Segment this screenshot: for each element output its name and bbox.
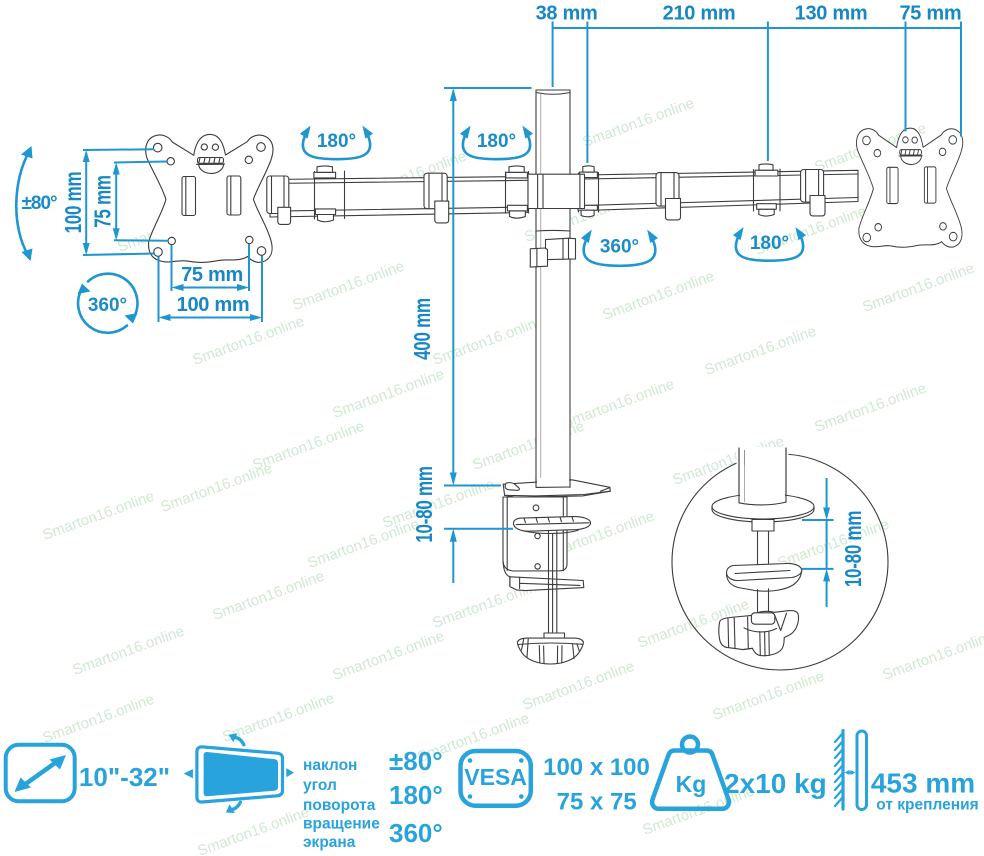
bottom-left extension lines <box>159 244 263 322</box>
svg-text:угол: угол <box>303 777 337 794</box>
10-80 mm dimension (inset) <box>802 520 834 569</box>
rotation label +-80 deg (far left) <box>16 146 57 261</box>
top dimension chain line <box>553 27 961 29</box>
pole <box>536 90 570 487</box>
svg-text:10"-32": 10"-32" <box>79 762 170 792</box>
svg-text:±80°: ±80° <box>389 746 443 776</box>
svg-text:±80°: ±80° <box>22 193 58 214</box>
10-80 mm dimension (main) <box>444 528 513 530</box>
inset wing knob <box>719 611 799 656</box>
clamp bracket bottom arm <box>503 562 584 591</box>
tilt caption text <box>303 757 380 851</box>
left VESA plate <box>146 134 273 262</box>
svg-text:экрана: экрана <box>303 834 356 851</box>
svg-text:360°: 360° <box>600 237 639 258</box>
svg-text:75 mm: 75 mm <box>91 175 116 228</box>
svg-text:38 mm: 38 mm <box>536 3 598 25</box>
collar below hub <box>530 230 575 267</box>
right arm bar <box>584 170 858 210</box>
svg-text:130 mm: 130 mm <box>795 3 868 25</box>
inset rod lower <box>758 589 769 614</box>
horizontal dimension 100 mm <box>162 317 260 319</box>
svg-text:вращение: вращение <box>303 816 380 833</box>
svg-text:360°: 360° <box>389 818 443 848</box>
screen size icon <box>6 745 75 802</box>
top dimension ticks <box>553 22 961 35</box>
pole over plate back edge <box>536 478 570 487</box>
svg-text:453 mm: 453 mm <box>871 768 975 799</box>
svg-text:180°: 180° <box>750 233 789 254</box>
angle list <box>389 746 443 848</box>
desk top plate of clamp <box>503 480 610 498</box>
400 mm dimension <box>444 88 532 486</box>
bottom icon row <box>6 731 979 852</box>
svg-text:10-80 mm: 10-80 mm <box>842 511 867 587</box>
left arm bolt joint 1 <box>314 166 345 222</box>
svg-text:180°: 180° <box>317 131 356 152</box>
detail inset circle <box>672 447 888 670</box>
monitor tilt icon <box>184 733 294 813</box>
right arm cable clip 4 <box>801 170 825 216</box>
wall distance icon <box>835 731 867 810</box>
svg-text:2x10 kg: 2x10 kg <box>724 768 827 799</box>
rotation label 180 deg (right of pole) <box>460 126 533 160</box>
left plate extension lines <box>83 149 168 255</box>
svg-text:100 mm: 100 mm <box>177 294 250 316</box>
right arm cable clip 3 <box>656 173 681 220</box>
vertical dimension 100 mm <box>85 153 87 252</box>
svg-text:Kg: Kg <box>676 771 707 797</box>
kg weight icon <box>652 737 729 809</box>
svg-text:VESA: VESA <box>464 764 527 790</box>
rotation label 180 deg (below arm right) <box>733 227 806 261</box>
VESA badge <box>461 751 531 806</box>
rotation label 180 deg (left top) <box>300 126 373 160</box>
blue dimensions <box>16 3 961 608</box>
svg-text:от крепления: от крепления <box>876 797 978 814</box>
vertical dimension 75 mm <box>115 166 117 238</box>
svg-text:10-80 mm: 10-80 mm <box>413 466 438 542</box>
svg-text:180°: 180° <box>389 780 443 810</box>
left arm cable clip 2 <box>424 173 449 223</box>
inset desk disc <box>712 494 814 519</box>
right VESA plate <box>856 128 962 247</box>
hub right bolt <box>578 166 599 217</box>
svg-text:360°: 360° <box>88 295 127 316</box>
rotation label 360 deg (below arm) <box>581 230 658 266</box>
central hub block <box>528 174 585 208</box>
svg-text:поворота: поворота <box>303 797 376 814</box>
hub left bolt <box>506 166 529 218</box>
svg-text:75 mm: 75 mm <box>181 264 243 286</box>
rotation label 360 deg (circle, left) <box>78 274 138 333</box>
svg-text:наклон: наклон <box>303 757 357 774</box>
svg-text:100 x 100: 100 x 100 <box>543 754 650 781</box>
clamp knob <box>517 638 583 664</box>
clamp pad plate <box>513 517 590 534</box>
left arm cable clip 1 <box>267 176 291 224</box>
svg-text:100 mm: 100 mm <box>62 172 87 234</box>
top extension lines <box>553 34 961 163</box>
svg-text:75 mm: 75 mm <box>899 3 961 25</box>
inset pole <box>737 447 789 496</box>
bracket screw holes <box>533 505 540 569</box>
inset clamp pad <box>727 563 802 580</box>
clamp C-bracket vertical face <box>503 497 567 571</box>
svg-text:400 mm: 400 mm <box>411 298 436 360</box>
svg-text:75 x 75: 75 x 75 <box>557 789 637 816</box>
inset rod upper <box>752 520 774 532</box>
right arm bolt joint 2 <box>754 164 781 216</box>
left arm bar <box>270 177 528 218</box>
svg-text:180°: 180° <box>477 131 516 152</box>
black line art <box>146 90 963 670</box>
horizontal dimension 75 mm <box>175 287 247 289</box>
clamp threaded rod <box>544 531 565 640</box>
svg-text:210 mm: 210 mm <box>663 3 736 25</box>
